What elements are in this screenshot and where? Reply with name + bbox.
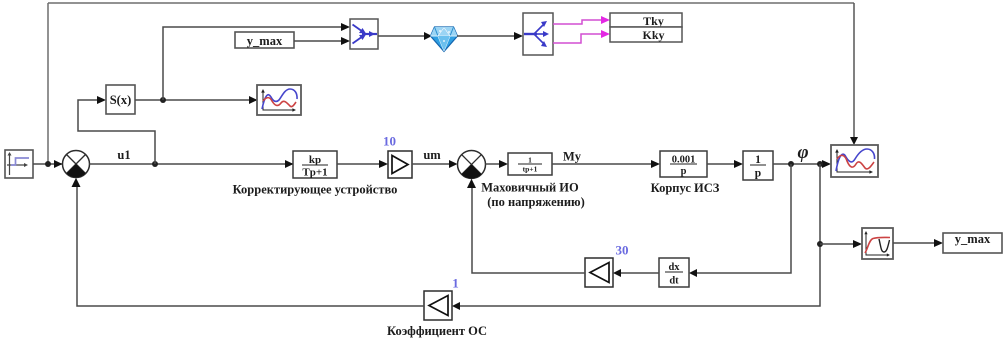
svg-text:(по напряжению): (по напряжению) — [487, 195, 585, 209]
wire junction up to mux input 1 — [163, 27, 342, 100]
svg-text:φ: φ — [797, 142, 808, 163]
svg-text:dx: dx — [668, 262, 680, 273]
sum1 bottom input arrow — [72, 178, 81, 187]
svg-text:1: 1 — [528, 156, 532, 165]
gain30 block (points left) — [585, 258, 613, 287]
sum2 bottom input arrow — [467, 179, 476, 188]
svg-text:p: p — [755, 168, 761, 180]
node u1 junction — [152, 161, 158, 167]
minmax scope block — [862, 228, 893, 259]
wire y_max to mux input 2 — [294, 40, 342, 42]
wire gem to demux — [457, 35, 515, 37]
wire right vertical down into scope top — [853, 3, 855, 138]
wire demux out2 to Kky (magenta) — [553, 34, 602, 43]
wire junction to minmax block — [820, 243, 854, 245]
wire step to sum1 — [33, 163, 62, 165]
svg-text:dt: dt — [669, 276, 679, 287]
wire dx/dt to gain30 — [621, 272, 659, 274]
wire sum1 output to kp block — [90, 163, 294, 165]
wire phi junction2 down and to gain1 — [460, 164, 820, 306]
kp transfer function block — [293, 151, 337, 179]
0.001/p block (Корпус ИСЗ) — [660, 151, 707, 177]
svg-text:Маховичный ИО: Маховичный ИО — [481, 181, 579, 195]
sum junction 2 — [458, 151, 486, 179]
Kky to-workspace block — [610, 27, 682, 42]
wire top feedback: left vertical from step line up — [47, 3, 49, 164]
svg-text:p: p — [681, 166, 687, 177]
node phi junction 1 — [788, 161, 794, 167]
wire top horizontal line — [48, 2, 854, 4]
wire demux out1 to Tky (magenta) — [553, 20, 602, 24]
gem display block — [431, 27, 458, 52]
gain1 block Коэффициент ОС (points left) — [424, 291, 452, 320]
sum junction 1 — [63, 151, 90, 178]
svg-text:kp: kp — [309, 154, 321, 166]
Tky to-workspace block — [610, 13, 682, 28]
wire minmax to y_max sink — [893, 242, 935, 244]
svg-text:Коэффициент ОС: Коэффициент ОС — [387, 324, 487, 338]
svg-text:u1: u1 — [117, 148, 130, 162]
svg-text:y_max: y_max — [955, 232, 991, 246]
wire gain1 to sum1 bottom — [77, 187, 424, 306]
svg-text:Tky: Tky — [643, 14, 664, 28]
junction on S(x) output — [160, 97, 166, 103]
demux block — [523, 13, 553, 55]
main scope block — [831, 145, 878, 177]
wire 0.001/p to 1/p — [707, 163, 735, 165]
y_max to-workspace sink block — [943, 232, 1002, 253]
svg-text:Tp+1: Tp+1 — [302, 167, 327, 179]
svg-text:Корректирующее устройство: Корректирующее устройство — [233, 183, 398, 197]
svg-text:30: 30 — [616, 243, 629, 258]
wire gain10 to sum2 — [412, 163, 450, 165]
wire sum2 to tf2 — [486, 163, 501, 165]
svg-text:1: 1 — [452, 276, 459, 291]
node phi junction 2 — [817, 161, 823, 167]
S(x) block — [106, 85, 135, 114]
1/p integrator block — [743, 151, 773, 180]
svg-text:1: 1 — [755, 154, 761, 166]
gain10 block — [388, 151, 412, 178]
wire u1 loop to S(x) input — [78, 100, 155, 164]
wire S(x) output to scope2 — [135, 99, 257, 101]
wire kp to gain10 — [337, 163, 380, 165]
wire 1/p to main scope — [773, 163, 823, 165]
y_max from-workspace source block — [235, 32, 294, 48]
svg-text:Корпус ИСЗ: Корпус ИСЗ — [651, 181, 720, 195]
junction top feedback on step wire — [45, 161, 51, 167]
mux block — [350, 19, 378, 49]
transfer fcn 1/(tp+1) block — [508, 153, 552, 175]
wire mux output to gem — [378, 35, 425, 37]
svg-text:S(x): S(x) — [110, 93, 132, 107]
dx/dt derivative block — [659, 258, 689, 287]
scope2 (S(x) scope) — [257, 85, 301, 115]
svg-text:Kky: Kky — [642, 28, 664, 42]
step source block — [5, 150, 33, 178]
svg-text:y_max: y_max — [247, 34, 283, 48]
svg-text:um: um — [423, 148, 441, 162]
node junction to minmax — [817, 241, 823, 247]
wire phi down to dx/dt — [697, 164, 791, 273]
svg-text:tp+1: tp+1 — [523, 165, 538, 174]
wire tf2 to 0.001/p block — [552, 163, 652, 165]
wire gain30 to sum2 bottom — [472, 188, 585, 273]
svg-text:10: 10 — [383, 134, 396, 149]
svg-text:My: My — [563, 150, 582, 164]
